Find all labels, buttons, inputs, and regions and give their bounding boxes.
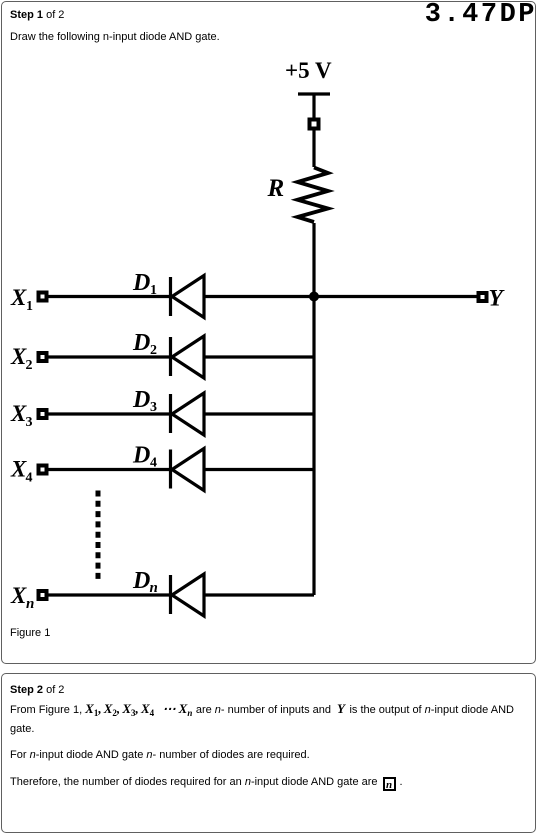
label D4 xyxy=(132,443,157,471)
svg-text:1: 1 xyxy=(150,283,157,298)
svg-text:2: 2 xyxy=(150,343,157,358)
svg-text:X: X xyxy=(10,583,27,608)
svg-text:D: D xyxy=(132,270,150,296)
label D3 xyxy=(132,387,157,415)
resistor label R xyxy=(267,175,285,202)
svg-text:R: R xyxy=(267,175,285,202)
label Dn xyxy=(132,568,158,596)
power rail bar xyxy=(298,92,330,95)
wire: resistor to node xyxy=(312,223,315,297)
svg-text:n: n xyxy=(26,596,34,612)
svg-text:1: 1 xyxy=(26,299,33,314)
description text xyxy=(10,31,220,43)
diode D2 xyxy=(171,336,205,378)
label Y xyxy=(489,286,506,312)
wire Xn to diode Dn xyxy=(48,593,169,596)
diode D3 xyxy=(171,393,205,435)
label X2 xyxy=(10,344,33,373)
input terminal X4 xyxy=(39,466,47,474)
panel step 1 xyxy=(1,1,536,664)
label X3 xyxy=(10,401,33,430)
node junction dot xyxy=(309,292,319,302)
wire: terminal to resistor xyxy=(312,130,315,167)
step 2 paragraph 2 xyxy=(10,749,310,761)
ellipsis dotted line xyxy=(96,491,101,584)
svg-text:X: X xyxy=(10,344,27,369)
wire: bar to top terminal xyxy=(312,95,315,118)
resistor R xyxy=(298,168,329,223)
wire D4 to bus xyxy=(204,468,314,471)
wire Dn to bus xyxy=(204,593,314,596)
wire X4 to diode D4 xyxy=(48,468,169,471)
input terminal X2 xyxy=(39,353,47,361)
wire X3 to diode D3 xyxy=(48,412,169,415)
svg-text:n: n xyxy=(150,580,158,596)
svg-text:4: 4 xyxy=(26,471,33,486)
+5 V supply label xyxy=(285,58,332,83)
wire D2 to bus xyxy=(204,355,314,358)
label D2 xyxy=(132,330,157,358)
top terminal square xyxy=(310,120,319,129)
diode D1 xyxy=(171,276,205,318)
diode Dn xyxy=(171,574,205,616)
panel step 2 xyxy=(1,673,536,833)
svg-text:D: D xyxy=(132,568,150,594)
wire X1 to diode D1 xyxy=(48,295,169,298)
figure caption xyxy=(10,627,50,639)
svg-text:D: D xyxy=(132,443,150,469)
output terminal Y xyxy=(479,293,487,301)
svg-text:3: 3 xyxy=(26,415,33,430)
problem code 3.47DP xyxy=(425,0,536,30)
step 2 paragraph 1 xyxy=(10,701,527,737)
diode D4 xyxy=(171,449,205,491)
svg-text:D: D xyxy=(132,387,150,413)
svg-text:2: 2 xyxy=(26,358,33,373)
wire D1 to node xyxy=(204,295,314,298)
step 2 header xyxy=(10,684,64,696)
svg-text:X: X xyxy=(10,401,27,426)
label X4 xyxy=(10,457,33,486)
svg-text:Y: Y xyxy=(489,286,506,312)
label D1 xyxy=(132,270,157,298)
svg-text:X: X xyxy=(10,285,27,310)
step 2 paragraph 3 xyxy=(10,776,403,791)
input terminal X1 xyxy=(39,293,47,301)
wire X2 to diode D2 xyxy=(48,355,169,358)
svg-text:X: X xyxy=(10,457,27,482)
svg-text:3: 3 xyxy=(150,400,157,415)
input terminal X3 xyxy=(39,410,47,418)
bus wire vertical xyxy=(312,297,315,596)
label Xn xyxy=(10,583,34,612)
svg-text:+5 V: +5 V xyxy=(285,58,332,83)
svg-text:D: D xyxy=(132,330,150,356)
wire: node to Y terminal xyxy=(314,295,477,298)
svg-text:4: 4 xyxy=(150,456,157,471)
step 1 header xyxy=(10,9,64,21)
wire D3 to bus xyxy=(204,412,314,415)
input terminal Xn xyxy=(39,591,47,599)
label X1 xyxy=(10,285,33,314)
